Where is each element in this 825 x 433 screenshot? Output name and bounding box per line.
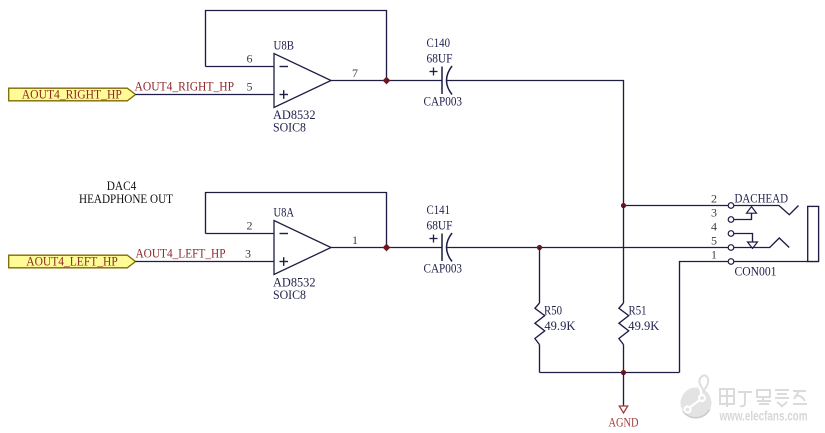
svg-text:49.9K: 49.9K [544,318,576,333]
svg-text:CON001: CON001 [735,264,777,279]
wire row2 to connector pin 2 [624,205,729,207]
resistor R51 [619,303,629,345]
svg-text:1: 1 [352,233,358,247]
svg-text:R51: R51 [629,303,647,318]
wire R51 lower lead [623,345,625,373]
svg-text:CAP003: CAP003 [424,261,463,276]
wire U8A output pin 1 [331,247,442,249]
svg-text:AOUT4_LEFT_HP: AOUT4_LEFT_HP [136,247,226,261]
svg-text:DACHEAD: DACHEAD [735,191,789,206]
svg-text:5: 5 [247,80,253,94]
capacitor C140 [430,66,453,95]
jack switch arrow up (row 3) [734,207,757,220]
port AOUT4_RIGHT_HP [9,87,136,101]
wire C140 to corner and down to pin2 row [447,81,624,206]
jack ring contact (row 5) [734,238,789,248]
wire U8A feedback loop [206,193,387,248]
wire connector pin1 to ground bus [680,262,729,373]
svg-text:C141: C141 [427,202,451,217]
svg-text:U8A: U8A [274,205,295,220]
connector CON001 pins [728,203,734,265]
svg-text:6: 6 [247,52,253,66]
svg-text:3: 3 [711,206,717,220]
svg-text:49.9K: 49.9K [628,318,660,333]
wire R50 lower lead [539,345,541,373]
wire port to U8B pin 5 [136,94,275,96]
wire port to U8A pin 3 [136,261,275,263]
jack switch arrow down (row 4) [734,234,758,249]
port AOUT4_LEFT_HP [9,254,136,268]
svg-text:SOIC8: SOIC8 [273,120,306,135]
svg-text:4: 4 [711,220,717,234]
watermark chinese characters [720,389,807,407]
svg-text:3: 3 [245,247,251,261]
svg-text:U8B: U8B [274,38,295,53]
wire R51 upper lead [623,206,625,304]
svg-text:AOUT4_LEFT_HP: AOUT4_LEFT_HP [26,254,118,268]
junction dot at R50 top [537,245,542,250]
svg-text:SOIC8: SOIC8 [273,287,306,302]
junction at U8A output [383,244,391,252]
svg-text:68UF: 68UF [427,218,453,233]
jack body rectangle [808,206,819,261]
op-amp U8A [274,221,331,275]
AGND symbol [619,406,627,413]
svg-text:www.elecfans.com: www.elecfans.com [719,408,808,424]
wire U8B pin 6 [206,66,275,68]
junction at U8B output [383,77,391,85]
junction dot at ground bus [621,370,626,375]
svg-text:68UF: 68UF [427,51,453,66]
svg-text:AOUT4_RIGHT_HP: AOUT4_RIGHT_HP [135,80,235,94]
svg-text:C140: C140 [427,35,451,50]
jack tip contact (row 2) [734,206,799,215]
op-amp U8B [274,54,331,108]
wire U8B output pin 7 [331,80,442,82]
jack sleeve wire (row 1) [734,261,819,263]
resistor R50 [535,303,545,345]
watermark logo [681,375,712,418]
capacitor C141 [430,233,453,262]
wire C141 to connector pin 5 [447,247,728,249]
svg-text:2: 2 [711,192,717,206]
wire bottom ground bus [540,372,680,374]
wire U8B feedback loop [206,11,387,81]
wire U8A pin 2 [206,233,275,235]
svg-text:AGND: AGND [609,415,639,430]
svg-text:HEADPHONE OUT: HEADPHONE OUT [79,191,173,206]
svg-text:5: 5 [711,234,717,248]
wire R50 upper lead [539,248,541,304]
junction dot at row2 [621,203,626,208]
svg-text:1: 1 [711,248,717,262]
wire AGND stem [623,373,625,407]
svg-text:CAP003: CAP003 [424,94,463,109]
svg-text:R50: R50 [544,303,562,318]
svg-text:2: 2 [247,219,253,233]
svg-text:7: 7 [352,66,358,80]
svg-text:AOUT4_RIGHT_HP: AOUT4_RIGHT_HP [22,87,122,101]
